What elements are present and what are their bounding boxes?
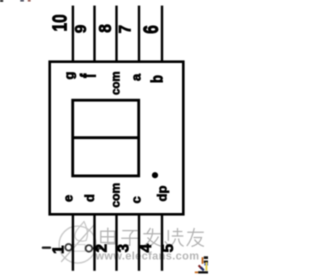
top edge crop marks	[0, 0, 3, 2]
svg-text:com: com	[109, 183, 123, 208]
svg-text:com: com	[111, 71, 123, 95]
pin wire 6 (top)	[161, 6, 163, 62]
watermark logo circle (elecfans)	[43, 222, 101, 264]
svg-text:3: 3	[116, 244, 133, 253]
watermark hanzi 烧	[165, 228, 184, 246]
pin wire 10 (top)	[72, 6, 74, 62]
svg-text:c: c	[129, 196, 144, 203]
svg-text:1: 1	[51, 245, 68, 254]
pin wire 1 (bottom)	[72, 215, 74, 271]
svg-text:5: 5	[160, 244, 177, 253]
watermark hanzi 发	[143, 228, 161, 246]
pin wire 7 (top)	[138, 6, 140, 62]
decimal point dot	[152, 172, 158, 178]
svg-text:d: d	[82, 194, 97, 202]
svg-text:e: e	[61, 195, 76, 202]
right lead	[93, 247, 101, 249]
svg-text:f: f	[76, 74, 100, 78]
small box between rings	[73, 245, 86, 252]
svg-text:6: 6	[139, 25, 163, 34]
svg-text:2: 2	[94, 244, 111, 253]
swoosh leaf	[75, 222, 86, 242]
svg-text:4: 4	[138, 244, 155, 253]
left lead	[43, 246, 50, 248]
svg-text:8: 8	[95, 24, 115, 33]
corner colorful logo fragment (bottom right)	[195, 256, 208, 273]
svg-text:10: 10	[49, 14, 71, 31]
svg-text:g: g	[62, 72, 77, 80]
svg-text:a: a	[129, 73, 144, 81]
watermark hanzi 电	[101, 228, 115, 244]
pin wire 9 (top)	[93, 6, 95, 62]
digit segment rectangle	[73, 100, 139, 176]
pin wire 5 (bottom)	[161, 215, 163, 271]
diagonal line	[62, 226, 94, 262]
digit middle segment	[73, 136, 139, 139]
pin wire 8 (top)	[115, 6, 117, 62]
svg-text:dp: dp	[155, 186, 170, 202]
svg-text:9: 9	[73, 24, 90, 33]
svg-text:7: 7	[116, 25, 135, 34]
pin wire 3 (bottom)	[115, 215, 117, 271]
watermark hanzi 子	[121, 231, 138, 246]
display body U1	[50, 62, 184, 215]
svg-text:b: b	[149, 75, 167, 83]
pin wire 2 (bottom)	[93, 215, 95, 271]
rings	[65, 244, 72, 251]
watermark hanzi 友	[187, 228, 204, 247]
pin wire 4 (bottom)	[138, 215, 140, 271]
